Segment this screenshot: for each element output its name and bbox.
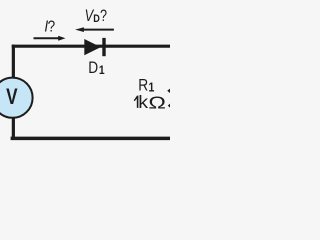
svg-text:I?: I? <box>44 19 55 36</box>
svg-text:D: D <box>93 13 100 25</box>
svg-text:V: V <box>6 85 18 110</box>
svg-text:1: 1 <box>99 64 105 77</box>
voltage source label V <box>6 85 18 110</box>
diode D1 cathode bar <box>102 38 105 56</box>
wire: left vertical, top corner to source top <box>12 45 15 79</box>
voltage source V (circle clipped by left edge) <box>0 78 33 118</box>
svg-text:Ω: Ω <box>148 93 166 112</box>
svg-text:?: ? <box>100 7 107 25</box>
wire: top horizontal run to right edge <box>12 45 170 48</box>
voltage label VD? <box>85 7 107 25</box>
svg-text:D: D <box>88 59 98 77</box>
wire: bottom horizontal run to right edge <box>11 137 170 141</box>
voltage arrow VD (pointing left) <box>75 27 114 32</box>
resistor value label 1kOhm <box>134 92 166 113</box>
resistor R1 zigzag tip A (clipped at right edge) <box>167 89 170 93</box>
current label I? <box>44 19 55 36</box>
diode D1 anode triangle <box>84 39 101 55</box>
diode label D1 <box>88 59 104 77</box>
resistor label R1 <box>138 76 155 94</box>
wire: left vertical, source bottom to bottom corner <box>12 118 15 141</box>
resistor R1 zigzag tip B (clipped at right edge) <box>168 104 170 108</box>
svg-text:k: k <box>138 92 149 112</box>
current arrow I (pointing right) <box>34 36 66 41</box>
